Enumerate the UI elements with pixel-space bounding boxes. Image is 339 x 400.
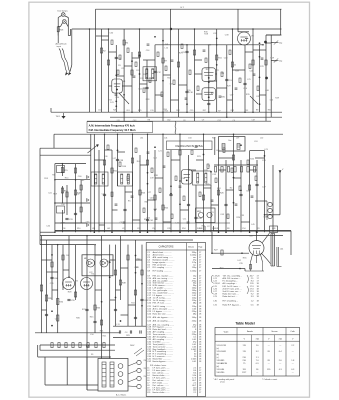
- svg-text:C41: C41: [164, 138, 167, 140]
- svg-text:Heater bypass .............: Heater bypass .............: [153, 360, 174, 363]
- wire: [62, 281, 65, 283]
- wire: [105, 149, 113, 151]
- wire: [117, 134, 119, 186]
- wire: [51, 245, 53, 300]
- wire ladder inner: [61, 164, 63, 176]
- wire: [170, 9, 172, 112]
- capacitor C60: [50, 276, 53, 278]
- svg-text:1,500p: 1,500p: [190, 271, 197, 273]
- extra cap stubs top: [115, 93, 118, 95]
- component value labels: [220, 235, 262, 269]
- component value labels: [50, 255, 141, 338]
- wire: [127, 245, 129, 327]
- resistor: [80, 207, 82, 212]
- resistor: [154, 195, 156, 200]
- svg-text:—: —: [292, 372, 294, 374]
- resistor: [141, 270, 143, 275]
- wire: [155, 177, 163, 179]
- resistor: [202, 195, 204, 200]
- wire: [234, 177, 242, 179]
- svg-text:H.T.: H.T.: [181, 7, 185, 9]
- wire: [121, 314, 129, 316]
- junction dots top: [108, 28, 110, 30]
- small trimmer box: [57, 166, 65, 173]
- wire: [186, 45, 188, 112]
- resistor: [231, 62, 233, 67]
- bus labels: [98, 109, 271, 122]
- smoothing rail wire 2: [113, 337, 146, 339]
- wire heater vertical: [66, 357, 68, 385]
- connector arrow: [87, 224, 90, 227]
- wire: [226, 45, 228, 117]
- svg-text:C36: C36: [62, 228, 65, 230]
- wire: [217, 87, 227, 89]
- svg-text:A.M. Intermediate Frequency 4: A.M. Intermediate Frequency 470 kc/s: [89, 123, 136, 127]
- wire bus left stub: [50, 108, 52, 112]
- wire top rail left drop: [95, 9, 97, 112]
- switch contact 2: [118, 372, 123, 377]
- svg-text:Table Model: Table Model: [235, 321, 254, 325]
- volume control drop wire: [279, 171, 281, 215]
- output transformer windings: [270, 234, 272, 267]
- electrolytic C51 C52: [268, 202, 272, 206]
- middle rail 3 wire: [40, 154, 91, 156]
- wire: [155, 94, 163, 96]
- wire: [266, 34, 282, 36]
- wire: [180, 209, 189, 211]
- dropper component row: [51, 343, 53, 348]
- svg-text:A.F. couplings ...: A.F. couplings ...: [223, 282, 238, 285]
- wire: [208, 45, 210, 112]
- capacitor: [185, 50, 188, 52]
- wire: [245, 51, 253, 53]
- svg-text:12p: 12p: [279, 43, 282, 45]
- wire valve anode diagonal: [262, 233, 270, 243]
- capacitor C62: [140, 298, 143, 300]
- wire: [124, 65, 132, 67]
- capacitor C12: [153, 70, 156, 72]
- wire: [41, 236, 43, 333]
- wire: [252, 29, 254, 112]
- capacitor: [129, 330, 131, 333]
- wire mains drop: [39, 345, 41, 350]
- capacitor: [207, 102, 210, 104]
- labels under middle rail: [140, 138, 263, 140]
- svg-text:R54: R54: [182, 228, 185, 230]
- extra component stubs middle: [107, 145, 109, 150]
- resistor: [74, 168, 76, 173]
- svg-text:(c): (c): [217, 357, 220, 359]
- svg-text:Page: Page: [198, 247, 202, 249]
- wire: [123, 29, 125, 121]
- svg-text:V3 EF89: V3 EF89: [217, 360, 226, 362]
- svg-text:—: —: [279, 363, 281, 365]
- wire: [245, 38, 248, 40]
- resistor R15: [61, 168, 63, 173]
- svg-text:† Cathode current: † Cathode current: [262, 378, 278, 381]
- wire: [94, 159, 104, 161]
- switch wafer 2: [110, 362, 114, 387]
- wire: [109, 245, 111, 345]
- wire stubs above bus: [204, 226, 206, 231]
- capacitor: [134, 316, 137, 318]
- capacitor C38: [116, 158, 119, 160]
- capacitor: [139, 330, 141, 333]
- svg-text:R13: R13: [165, 110, 168, 112]
- FM tuner unit box: [219, 137, 246, 151]
- svg-text:C53: C53: [245, 110, 248, 112]
- valve: [182, 170, 193, 185]
- wire: [162, 134, 164, 232]
- capacitors table rows: [147, 251, 202, 363]
- wire: [121, 267, 129, 269]
- wire: [231, 29, 233, 112]
- coil list brackets: [211, 275, 212, 283]
- wire: [266, 42, 271, 44]
- resistor: [179, 150, 181, 155]
- wire: [95, 254, 102, 256]
- mid top rail wire: [155, 44, 263, 46]
- wire: [46, 240, 48, 333]
- bus labels bottom: [62, 228, 275, 230]
- wire: [115, 45, 117, 112]
- dial lamp LP1: [61, 13, 65, 17]
- IF transformer IFT4: [193, 171, 212, 185]
- wire: [178, 29, 180, 117]
- capacitor: [85, 308, 88, 310]
- trimmer capacitor 12p: [274, 42, 279, 44]
- svg-text:R.F. loading ..............: R.F. loading ..............: [153, 271, 172, 273]
- wire cathode bottom: [245, 270, 264, 272]
- aerial terminal arrows: [65, 72, 68, 76]
- wire: [75, 245, 77, 300]
- wire: [122, 85, 132, 87]
- wire trimmer stubs: [271, 42, 273, 44]
- HT distribution wire: [38, 356, 111, 358]
- wire: [209, 80, 217, 82]
- svg-text:R.F. coupling .............: R.F. coupling .............: [153, 267, 173, 269]
- wire: [216, 29, 218, 112]
- capacitor: [187, 203, 190, 205]
- svg-text:C67: C67: [252, 120, 255, 122]
- wire: [163, 74, 171, 76]
- wire: [118, 151, 126, 153]
- wire: [133, 219, 141, 221]
- wire: [99, 224, 105, 226]
- svg-text:C50: C50: [152, 228, 155, 230]
- wire: [227, 99, 233, 101]
- svg-text:of set.: of set.: [220, 380, 226, 383]
- mains switch assembly box: [98, 359, 128, 392]
- resistor: [138, 52, 140, 57]
- capacitor: [224, 203, 227, 205]
- svg-text:Values: Values: [188, 247, 194, 249]
- wire: [146, 60, 148, 117]
- resistor: [252, 60, 254, 65]
- wire: [101, 29, 103, 112]
- resistor: [131, 158, 133, 163]
- wire: [256, 160, 258, 232]
- Table Model table frame: [215, 328, 300, 377]
- resistor: [80, 185, 82, 190]
- gang arrow: [88, 145, 98, 153]
- wire: [140, 83, 148, 85]
- svg-text:C6: C6: [233, 120, 235, 122]
- wire: [116, 75, 124, 77]
- AVC line wire: [60, 222, 230, 224]
- svg-text:F.M. Intermediate Frequency 10: F.M. Intermediate Frequency 10.7 Mc/s: [89, 128, 137, 132]
- wire: [196, 159, 204, 161]
- resistor R11: [216, 55, 218, 60]
- capacitor C55: [67, 298, 70, 300]
- svg-text:—: —: [268, 345, 270, 347]
- dial lamp wiring: [58, 16, 61, 18]
- scattered junction dots: [51, 36, 265, 327]
- bus wire 3: [40, 239, 193, 241]
- svg-text:F.M. I.F. tune ............: F.M. I.F. tune ............: [153, 301, 172, 304]
- svg-text:C55: C55: [190, 110, 193, 112]
- solder blob: [264, 41, 267, 44]
- wire: [111, 150, 113, 232]
- wire: [42, 309, 47, 311]
- capacitor C18: [185, 90, 188, 92]
- svg-text:Osc: Osc: [228, 140, 232, 142]
- resistor: [249, 185, 251, 190]
- wire: [260, 94, 267, 96]
- wire: [68, 236, 70, 277]
- wire: [131, 52, 133, 112]
- wire: [110, 299, 116, 301]
- connector arrow: [87, 176, 90, 179]
- svg-text:R32: R32: [176, 110, 179, 112]
- svg-text:Ratio det. tert. ...: Ratio det. tert. ...: [223, 295, 238, 298]
- svg-text:240V: 240V: [130, 345, 135, 347]
- svg-text:F.M. 1st I.F. trans. ...: F.M. 1st I.F. trans. ...: [223, 285, 241, 288]
- wire: [125, 191, 133, 193]
- svg-text:Ratio det. trans. ...: Ratio det. trans. ...: [223, 293, 240, 296]
- svg-text:C8: C8: [183, 120, 185, 122]
- wire: [109, 51, 117, 53]
- rectifier MR1: [87, 259, 95, 267]
- wire: [94, 245, 96, 333]
- capacitor: [243, 82, 246, 84]
- svg-text:R.F. chokes / misc: R.F. chokes / misc: [150, 365, 166, 367]
- wire: [171, 99, 179, 101]
- svg-text:FERGUSON 325A: FERGUSON 325A: [175, 144, 202, 148]
- svg-text:MR2: MR2: [197, 211, 201, 213]
- mains tap diagonals: [134, 348, 142, 354]
- wire: [108, 29, 110, 112]
- extra rows lower table: [147, 367, 202, 395]
- mains rail wire 2: [40, 349, 115, 351]
- svg-text:input: input: [57, 45, 62, 48]
- capacitor: [169, 193, 172, 195]
- resistor: [134, 290, 136, 295]
- resistor R7: [162, 58, 164, 63]
- wire: [136, 259, 143, 261]
- wire fm tuner stub: [214, 137, 216, 155]
- capacitor: [239, 193, 242, 195]
- resistor: [51, 262, 53, 267]
- resistor R17: [61, 188, 63, 193]
- wire: [62, 245, 64, 290]
- capacitor: [145, 86, 148, 88]
- wire: [244, 45, 246, 112]
- wire: [154, 150, 156, 232]
- svg-text:R3: R3: [257, 228, 259, 230]
- wire valve top: [256, 232, 258, 241]
- wire: [253, 49, 266, 51]
- svg-text:V1 ECC85: V1 ECC85: [217, 345, 227, 347]
- coil and transformer list: [214, 275, 260, 306]
- wire: [204, 187, 212, 189]
- wire: [203, 134, 205, 232]
- wire: [110, 259, 116, 261]
- wire: [194, 29, 196, 121]
- svg-text:C49: C49: [215, 228, 218, 230]
- resistor: [40, 285, 42, 291]
- switch contact 1: [118, 364, 123, 369]
- wire: [101, 236, 103, 345]
- wire: [179, 134, 181, 232]
- svg-text:Screen: Screen: [271, 331, 277, 333]
- wire: [63, 269, 69, 271]
- IF transformer IFT1: [143, 67, 157, 81]
- ground: [63, 113, 65, 116]
- connector arrow: [87, 199, 90, 202]
- svg-text:Dial lamps: Dial lamps: [58, 10, 69, 12]
- middle rail 2 wire: [40, 147, 91, 149]
- cathode resistor: [249, 265, 251, 270]
- wire: [139, 155, 141, 232]
- svg-text:—: —: [279, 345, 281, 347]
- resistor: [193, 50, 195, 55]
- wire: [95, 289, 102, 291]
- wire: [112, 209, 118, 211]
- svg-text:V4 EABC80: V4 EABC80: [217, 362, 229, 365]
- resistor R2: [100, 48, 102, 53]
- svg-text:C28: C28: [167, 228, 170, 230]
- IF transformer IFT3: [118, 172, 133, 186]
- resistor: [57, 315, 59, 321]
- fuse squiggle: [174, 122, 177, 134]
- svg-text:L11: L11: [122, 228, 125, 230]
- wire: [265, 35, 267, 121]
- middle top rail wire: [54, 133, 283, 135]
- svg-text:C9: C9: [202, 119, 204, 121]
- svg-text:C61: C61: [126, 110, 129, 112]
- resistor: [103, 160, 105, 165]
- component value labels: [44, 175, 90, 228]
- wire right shelf: [266, 34, 281, 36]
- voltage selector wires: [128, 363, 137, 367]
- resistor: [62, 255, 64, 260]
- switch contact 3: [118, 380, 123, 385]
- tuner box windings: [222, 144, 225, 150]
- wire left edge middle: [39, 148, 41, 232]
- junction dots output: [256, 231, 258, 233]
- capacitor: [123, 208, 126, 210]
- wire: [270, 35, 272, 117]
- wire middle rail drop left: [53, 134, 55, 148]
- svg-text:R8: R8: [256, 110, 258, 112]
- svg-text:220*: 220*: [242, 372, 246, 374]
- wire speaker return: [290, 231, 292, 255]
- Table Model rows: [217, 345, 296, 374]
- junction dots middle-left: [54, 179, 56, 181]
- capacitor: [255, 183, 258, 185]
- svg-text:A.M. R.F. to mixer ...: A.M. R.F. to mixer ...: [223, 277, 242, 280]
- svg-text:L34: L34: [140, 138, 143, 140]
- svg-text:L59: L59: [236, 138, 239, 140]
- svg-text:R28: R28: [113, 110, 116, 112]
- svg-text:R7: R7: [218, 110, 220, 112]
- small trimmer box 2: [57, 206, 65, 213]
- component value labels: [102, 141, 269, 228]
- wire: [171, 159, 180, 161]
- svg-text:2nd I.F. trans. sec. ...: 2nd I.F. trans. sec. ...: [223, 290, 242, 293]
- resistor: [265, 60, 267, 65]
- capacitors table frame: [146, 243, 205, 397]
- wire: [219, 157, 234, 159]
- wire: [272, 165, 274, 232]
- IF caption box: [87, 122, 153, 133]
- rectifier MR2: [100, 259, 108, 267]
- extra cap stubs middle: [115, 203, 118, 205]
- junction dots bottom-left: [57, 244, 59, 246]
- wire: [259, 45, 261, 112]
- wire: [132, 57, 140, 59]
- wire: [179, 84, 188, 86]
- wire: [211, 204, 219, 206]
- aerial twisted feeder: [59, 49, 67, 73]
- wire: [47, 271, 58, 273]
- wire: [140, 164, 148, 166]
- resistor R23: [139, 190, 141, 195]
- resistor: [127, 255, 129, 260]
- wire: [52, 289, 58, 291]
- svg-text:Cath.: Cath.: [290, 330, 295, 333]
- svg-text:C49: C49: [272, 228, 275, 230]
- svg-text:L43: L43: [107, 228, 110, 230]
- wire: [42, 259, 53, 261]
- svg-text:R8: R8: [148, 120, 150, 122]
- voltage selector contacts: [137, 360, 141, 364]
- tone switch wire: [255, 200, 267, 202]
- wire: [233, 134, 235, 232]
- capacitor: [74, 212, 77, 214]
- wire heater run: [86, 357, 88, 390]
- wire: [219, 169, 227, 171]
- resistor: [146, 160, 148, 165]
- junction dots middle: [132, 133, 134, 135]
- svg-text:Heater choke ........: Heater choke ........: [153, 391, 170, 394]
- svg-text:R25: R25: [138, 110, 141, 112]
- wire: [139, 29, 141, 112]
- svg-text:V6 EZ80: V6 EZ80: [217, 372, 226, 374]
- wire: [238, 31, 249, 33]
- capacitor C41: [146, 218, 149, 220]
- svg-text:V5 EL84: V5 EL84: [217, 369, 226, 371]
- humbucking coil box: [270, 226, 278, 232]
- wave switch lever 2: [250, 96, 258, 104]
- svg-text:L31: L31: [92, 228, 95, 230]
- wire: [225, 160, 227, 232]
- wire: [240, 160, 242, 232]
- svg-text:C52: C52: [217, 120, 220, 122]
- capacitor C31: [65, 217, 68, 219]
- svg-text:A.M. det. bypass ..........: A.M. det. bypass ..........: [153, 316, 174, 319]
